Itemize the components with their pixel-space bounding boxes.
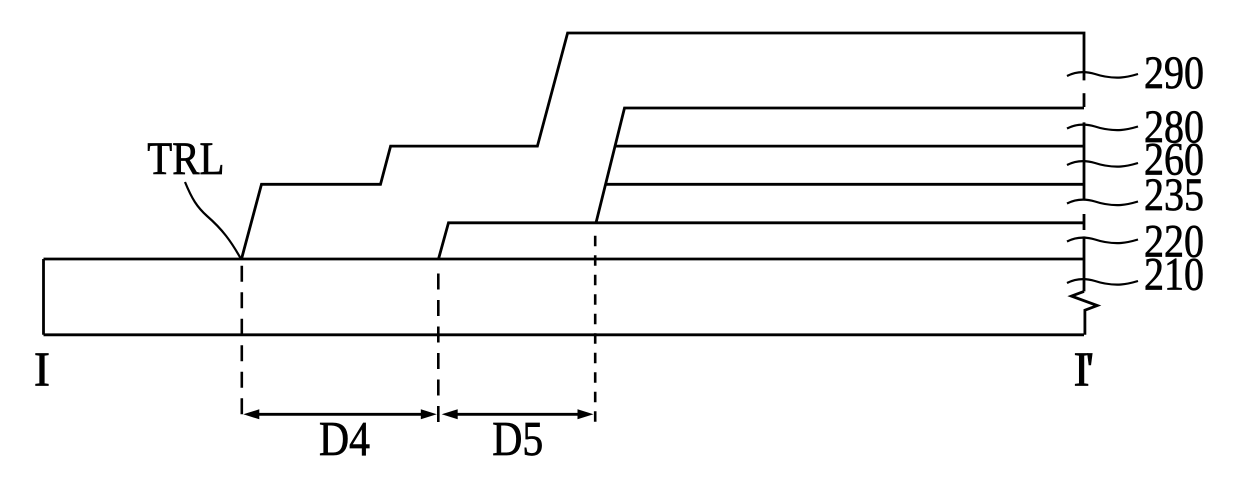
layer 280 line (596, 108, 1084, 223)
dashed line at 220 start (437, 274, 440, 423)
layer 220 line (439, 223, 1085, 259)
squiggle leader 220 (1067, 238, 1138, 244)
squiggle leader 290 (1067, 72, 1138, 78)
dashed line at 280 start (594, 236, 597, 422)
substrate 210 top line (44, 258, 1085, 261)
arrowhead D4 left (243, 409, 259, 419)
dimension arrow D4 (250, 413, 430, 416)
substrate 210 left edge (42, 259, 45, 335)
arrowhead D4 right (421, 409, 437, 419)
squiggle leader 260 (1067, 161, 1138, 167)
svg-text:TRL: TRL (147, 133, 224, 185)
svg-text:D5: D5 (492, 413, 543, 466)
dashed line at TRL start (241, 266, 244, 422)
dimension arrow D5 (448, 413, 587, 416)
layer 260 line (615, 145, 1084, 148)
substrate right edge break zigzag (1071, 291, 1097, 334)
svg-text:235: 235 (1144, 169, 1204, 221)
layer 290 stepped outline (242, 33, 1085, 259)
arrowhead D5 left (442, 409, 458, 419)
squiggle leader 280 (1067, 125, 1138, 131)
layer 235 line (606, 183, 1085, 186)
arrowhead D5 right (578, 409, 594, 419)
svg-text:290: 290 (1144, 47, 1204, 99)
svg-text:210: 210 (1144, 249, 1204, 301)
TRL leader curve (185, 182, 241, 259)
svg-text:D4: D4 (319, 413, 370, 466)
squiggle leader 210 (1067, 279, 1138, 285)
right edge tick above 280 (1083, 93, 1086, 107)
right edge segment at substrate top (1083, 236, 1086, 291)
substrate 210 bottom line (44, 333, 1085, 336)
right edge tick at 220 (1083, 214, 1086, 230)
squiggle leader 235 (1067, 200, 1138, 206)
svg-text:': ' (1086, 343, 1095, 396)
svg-text:I: I (34, 343, 50, 396)
right edge segment 260-235 (1083, 122, 1086, 199)
